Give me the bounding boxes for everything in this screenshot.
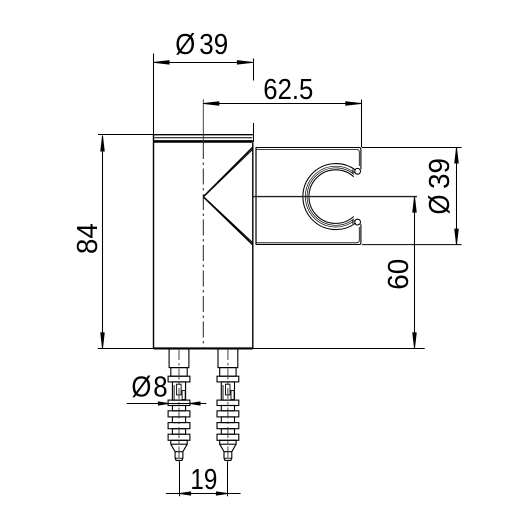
svg-text:Ø: Ø (131, 371, 151, 403)
value label Ø8 (131, 371, 167, 403)
screw anchor left (168, 349, 190, 462)
svg-text:Ø39: Ø39 (424, 158, 456, 215)
hook knob bottom (353, 219, 361, 225)
holder cup outline (256, 148, 361, 245)
dim Ø8: dimension line (127, 403, 207, 405)
svg-text:60: 60 (383, 259, 415, 290)
value label Ø39 top (175, 29, 228, 61)
mounting flange top edge (154, 135, 253, 142)
svg-text:Ø: Ø (175, 29, 195, 61)
cylinder body (154, 135, 253, 348)
arrowheads dim 84 (101, 136, 104, 348)
arrowheads dim Ø39 top (154, 61, 252, 64)
dim Ø39 top: extension and dimension lines (154, 54, 254, 143)
svg-text:84: 84 (72, 223, 104, 254)
arrowheads dim 60 (413, 197, 416, 348)
dim 19: extension and dimension lines (166, 462, 241, 497)
dim 84: extension and dimension lines (98, 135, 154, 349)
hook knob top (353, 168, 361, 174)
svg-text:62.5: 62.5 (263, 74, 313, 106)
arrowheads dim 62.5 (204, 102, 361, 105)
cylinder vertical centerline (202, 99, 204, 348)
svg-text:8: 8 (153, 371, 167, 403)
screw anchor right (217, 349, 239, 462)
arrowheads dim Ø39 right (455, 148, 458, 244)
arrowheads dim 19 (180, 492, 228, 495)
arrowheads dim Ø8 (158, 402, 200, 405)
dim 60: extension and dimension lines (253, 197, 425, 349)
cone transition (203, 147, 256, 245)
dim Ø39 right: extension and dimension lines (362, 148, 462, 245)
svg-text:19: 19 (190, 464, 217, 496)
dim 62.5: extension and dimension lines (203, 100, 361, 148)
svg-text:39: 39 (199, 29, 228, 61)
holder horizontal centerline (253, 196, 417, 198)
C-clip ring (303, 164, 356, 230)
